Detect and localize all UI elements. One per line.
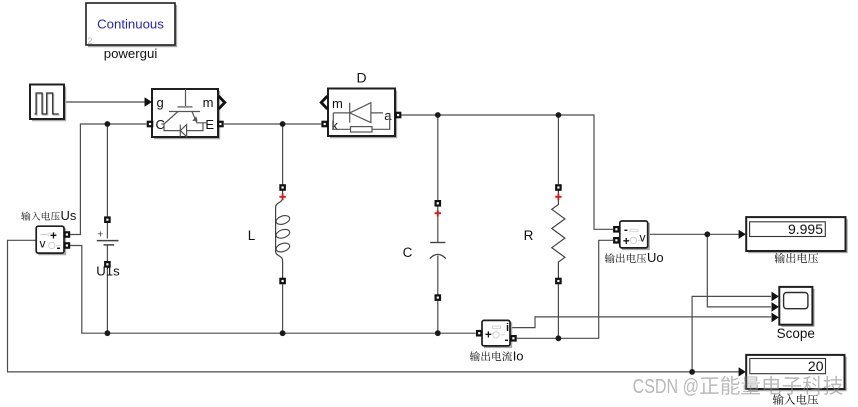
- svg-text:v: v: [640, 231, 646, 245]
- svg-text:powergui: powergui: [104, 46, 158, 61]
- display block: output voltage value 9.995: [746, 217, 847, 252]
- label 输出电压Uo: [605, 253, 647, 263]
- junction: rail node below L: [280, 330, 286, 336]
- wire: R bottom to current measurement minus and up to Uo plus: [517, 240, 613, 338]
- svg-text:-: -: [624, 224, 628, 236]
- voltage measurement block Uo: [613, 221, 649, 249]
- wire: pulse generator to IGBT gate g: [64, 101, 145, 103]
- junction: node above capacitor C: [435, 112, 441, 118]
- svg-text:-: -: [505, 335, 509, 347]
- svg-text:R: R: [524, 228, 534, 243]
- svg-text:g: g: [157, 95, 164, 110]
- svg-text:C: C: [403, 245, 413, 260]
- svg-text:a: a: [384, 108, 392, 123]
- junction: node at E/k rail above L: [280, 121, 286, 127]
- IGBT E port: [217, 121, 224, 128]
- label 输入电压Us: [21, 211, 60, 220]
- diode a port: [395, 112, 402, 119]
- Uo + port: [613, 237, 620, 244]
- junction: node on Uo signal wire: [704, 231, 710, 237]
- IGBT gate input port g: [145, 97, 152, 106]
- Io - port: [510, 335, 517, 342]
- Io + port: [476, 330, 483, 337]
- svg-text:Continuous: Continuous: [97, 17, 164, 32]
- svg-text:Uo: Uo: [647, 250, 664, 265]
- voltage measurement block Us: [36, 226, 70, 254]
- U1s bottom port: [104, 261, 111, 268]
- svg-text:v: v: [40, 237, 46, 251]
- diode block D: [321, 70, 401, 138]
- wire: Us voltage signal long run to input display and Scope input 1: [8, 240, 740, 372]
- DC voltage source U1s: [96, 216, 120, 278]
- U1s top port: [104, 216, 111, 223]
- C bottom port: [435, 294, 442, 301]
- svg-text:k: k: [332, 118, 339, 133]
- svg-text:m: m: [203, 95, 214, 110]
- pulse generator block: [30, 85, 65, 121]
- Us + port: [64, 231, 71, 238]
- C top port: [435, 200, 442, 207]
- wire: bottom return rail to current measurement +: [70, 246, 476, 334]
- svg-text:-: -: [57, 243, 61, 255]
- svg-text:U1s: U1s: [96, 264, 120, 279]
- wire: left branch from IGBT C to voltage measurement + and DC source top: [70, 124, 146, 235]
- diode k port: [321, 121, 328, 128]
- R polarity mark: [555, 194, 561, 200]
- svg-text:i: i: [506, 322, 509, 334]
- display block: input voltage value 20: [746, 355, 846, 390]
- label 输出电压 (display): [774, 253, 818, 263]
- wire: diode a to output node, across C and R branches, down to Uo minus: [401, 115, 613, 229]
- IGBT C port: [147, 121, 154, 128]
- R top port: [555, 184, 562, 191]
- inductor L: [248, 184, 291, 284]
- capacitor C: [403, 200, 446, 301]
- svg-text:+: +: [97, 229, 103, 241]
- junction: node on Us signal wire: [689, 369, 695, 375]
- junction: rail node below U1s: [105, 330, 111, 336]
- svg-text:L: L: [248, 228, 256, 243]
- watermark CSDN: [633, 375, 843, 398]
- junction: node at R bottom / Io minus: [556, 335, 562, 341]
- label 输入电压 (display): [773, 394, 818, 405]
- Uo - port: [613, 226, 620, 233]
- label 输出电流Io: [470, 351, 512, 361]
- junction: node at C-port rail above U1s: [105, 121, 111, 127]
- Us - port: [64, 242, 71, 249]
- svg-text:Us: Us: [61, 208, 77, 223]
- IGBT measurement output m (unconnected chevron): [219, 96, 225, 109]
- svg-text:CSDN @: CSDN @: [633, 375, 699, 398]
- svg-text:+: +: [50, 231, 57, 243]
- R bottom port: [555, 278, 562, 285]
- junction: rail node below C: [435, 330, 441, 336]
- IGBT block U1: [145, 89, 225, 138]
- svg-text:9.995: 9.995: [788, 221, 823, 237]
- svg-text:20: 20: [808, 358, 824, 374]
- svg-text:E: E: [205, 117, 214, 132]
- current measurement block Io: [476, 320, 517, 347]
- L polarity mark: [279, 194, 285, 200]
- svg-text:+: +: [485, 329, 492, 341]
- svg-text:Io: Io: [513, 348, 524, 363]
- svg-text:m: m: [332, 96, 343, 111]
- wire: Uo voltage signal to display and Scope input 2: [648, 233, 739, 235]
- svg-text:+: +: [623, 236, 630, 248]
- svg-text:2: 2: [88, 36, 93, 46]
- L top port: [279, 184, 286, 191]
- powergui block: [86, 3, 176, 61]
- scope block: [777, 287, 815, 341]
- C polarity mark: [435, 210, 441, 216]
- junction: node above resistor R: [556, 112, 562, 118]
- resistor R: [524, 184, 565, 284]
- wire: IGBT E to diode k with branch down to inductor L: [224, 123, 321, 125]
- diode measurement output m (unconnected chevron): [321, 96, 327, 109]
- L bottom port: [279, 278, 286, 285]
- wire: Io current signal i to Scope input 3: [510, 317, 771, 328]
- svg-text:D: D: [356, 70, 366, 86]
- svg-text:Scope: Scope: [777, 326, 815, 341]
